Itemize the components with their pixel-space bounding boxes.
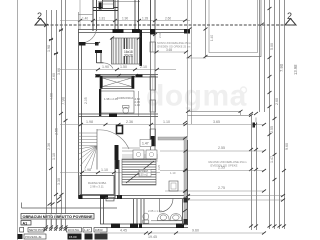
svg-text:15.00: 15.00 — [69, 235, 77, 239]
svg-text:2.36: 2.36 — [47, 143, 51, 150]
sink unit 2 — [170, 214, 182, 221]
svg-text:1.90: 1.90 — [122, 17, 128, 21]
bottom rooms divider walls — [134, 199, 145, 224]
upper stair hatch — [112, 38, 138, 64]
svg-text:2.60: 2.60 — [165, 17, 171, 21]
svg-text:KUPAONICA: KUPAONICA — [117, 96, 133, 100]
mid dimension line — [60, 124, 264, 126]
gray wall end black segments — [184, 198, 189, 203]
left chain tick marks — [44, 24, 68, 229]
svg-text:1.47: 1.47 — [142, 142, 149, 146]
svg-text:1.28: 1.28 — [142, 17, 148, 21]
svg-text:dogma: dogma — [146, 80, 247, 113]
annotation text vanjski zid — [208, 160, 247, 168]
wall below bathroom — [79, 114, 159, 117]
bottom-left chain arrows — [44, 228, 68, 231]
white label box 1.47 — [140, 140, 152, 147]
bottom right wall vertical — [183, 140, 188, 225]
plot boundary line bottom left — [22, 207, 117, 209]
svg-text:4.45: 4.45 — [120, 229, 127, 233]
top right terrace rectangle inner — [209, 0, 258, 53]
porch step box above bottom wall — [106, 197, 114, 201]
left wall black mid — [99, 89, 101, 116]
patio corner ticks — [186, 110, 257, 127]
stair outline — [112, 38, 140, 64]
svg-text:1.40: 1.40 — [210, 35, 214, 41]
top dimension ticks — [78, 19, 187, 22]
big door arc mid — [97, 130, 129, 149]
svg-text:2.05 x 1.60: 2.05 x 1.60 — [148, 209, 162, 213]
void X box — [100, 76, 134, 89]
upper annex top wall — [93, 8, 118, 11]
table: A1 box — [21, 221, 31, 226]
dim line lower mid — [60, 172, 160, 174]
top right terrace rectangle outer — [206, 0, 262, 57]
top dimension line — [60, 20, 190, 22]
svg-text:1.40: 1.40 — [82, 17, 88, 21]
bathroom room box — [100, 91, 134, 113]
svg-text:PRIZEMLJE: PRIZEMLJE — [25, 235, 42, 239]
wall below stair — [95, 75, 158, 78]
tiny leader text left of plan top — [157, 164, 161, 170]
svg-text:1.10: 1.10 — [170, 171, 176, 175]
svg-text:13.98: 13.98 — [293, 64, 298, 75]
svg-text:3.30: 3.30 — [57, 178, 61, 185]
gray outer wall vertical — [184, 137, 187, 225]
table row 2 boxes — [18, 234, 108, 240]
ticks on right area dim lines — [184, 150, 286, 202]
wall pier tick — [95, 50, 102, 53]
kitchen appliance boxes — [133, 150, 157, 159]
vertical extension lines through table — [46, 213, 61, 231]
dimension line mid upper — [60, 69, 176, 71]
corner ticks gray wall — [183, 121, 187, 212]
wall below lower-left room — [79, 196, 191, 199]
section marker 2 right — [285, 11, 296, 25]
kitchen counter hatch — [122, 155, 158, 161]
svg-text:19.45: 19.45 — [148, 235, 157, 239]
svg-text:9.60: 9.60 — [285, 143, 289, 150]
small dimension text cluster above top-left — [210, 35, 214, 41]
svg-text:2.10: 2.10 — [140, 65, 147, 69]
svg-text:2.55: 2.55 — [55, 128, 59, 135]
plan left edge extension line — [79, 0, 81, 29]
svg-text:1.47: 1.47 — [270, 156, 274, 163]
svg-text:2.05: 2.05 — [84, 97, 88, 104]
sink unit 1 — [157, 214, 169, 221]
table: header box — [21, 214, 94, 220]
svg-text:1.10: 1.10 — [101, 168, 108, 172]
lower-left room — [80, 176, 114, 195]
right area dim lines — [160, 150, 264, 152]
svg-text:2.75: 2.75 — [218, 186, 225, 190]
main top wall — [79, 29, 191, 35]
svg-text:2.60: 2.60 — [52, 73, 56, 80]
svg-text:0.25: 0.25 — [157, 164, 161, 170]
section dashed line — [46, 24, 296, 26]
svg-text:1.98: 1.98 — [86, 120, 93, 124]
dimension marker mid-left of terrace — [188, 28, 208, 59]
section marker 2 left — [35, 11, 46, 25]
central vertical wall lower — [115, 160, 119, 199]
stair centre label — [123, 49, 133, 56]
left wall bottom part — [101, 199, 104, 224]
upper annex left wall — [93, 0, 97, 31]
annex inner walls — [115, 0, 155, 34]
upper-left short wall line — [79, 14, 94, 16]
patio lower edge lines — [188, 111, 257, 122]
svg-text:2.60: 2.60 — [158, 32, 162, 38]
plan left wall — [79, 29, 82, 199]
svg-text:A1: A1 — [23, 221, 28, 225]
watermark dogma — [146, 80, 247, 113]
chimney block — [103, 0, 114, 9]
landing lines — [122, 148, 140, 151]
table row 1 boxes — [20, 228, 107, 233]
svg-text:1.98: 1.98 — [84, 168, 91, 172]
svg-text:3.65: 3.65 — [166, 48, 172, 52]
short tie line terrace left — [186, 57, 206, 59]
chain arrow ticks above table — [48, 193, 64, 206]
window marks right wall — [150, 42, 156, 52]
svg-text:IZVEDEN OD OPEKE 25 cm: IZVEDEN OD OPEKE 25 cm — [157, 44, 190, 48]
svg-text:OBRACUN NETO I BRUTTO POVRSINE: OBRACUN NETO I BRUTTO POVRSINE — [23, 215, 93, 219]
stair direction arrow — [126, 161, 154, 183]
svg-text:NOSIVI ZID DEBLJINE 25cm: NOSIVI ZID DEBLJINE 25cm — [157, 41, 191, 45]
room tiny texts — [104, 96, 140, 107]
small dim line right of wall — [156, 51, 186, 53]
entry landing wall — [79, 43, 99, 45]
svg-text:IZVEDEN OD OPEKE: IZVEDEN OD OPEKE — [210, 164, 238, 168]
lower stair hatch — [122, 160, 156, 185]
svg-text:5.00: 5.00 — [270, 43, 274, 50]
stair door arc — [104, 63, 114, 69]
svg-text:7.90: 7.90 — [279, 63, 284, 72]
small shower box — [169, 181, 178, 191]
svg-text:4.66: 4.66 — [50, 93, 54, 100]
svg-text:3.65: 3.65 — [213, 120, 220, 124]
right wall of upper rooms — [151, 34, 156, 160]
left rotated dimension texts — [47, 45, 66, 185]
svg-text:10=0.5m: 10=0.5m — [68, 228, 80, 232]
svg-text:30x28: 30x28 — [124, 54, 133, 58]
svg-text:1.98: 1.98 — [47, 45, 51, 52]
winder stair diagonal treads — [79, 146, 98, 170]
corridor wall line — [138, 91, 140, 116]
right dimension chain verticals — [252, 0, 285, 230]
svg-text:3.66: 3.66 — [57, 68, 61, 75]
entry door arc top left — [81, 28, 97, 44]
gray outer wall horizontal — [158, 137, 187, 140]
bathroom counter line — [151, 220, 183, 222]
left dimension chain verticals — [47, 0, 66, 231]
svg-text:9.60: 9.60 — [192, 229, 199, 233]
right chain tick marks — [249, 7, 286, 228]
winder stair edge vertical — [96, 129, 98, 170]
annotation small top mid — [158, 32, 176, 175]
wall pier box mid — [117, 126, 123, 134]
svg-text:7.90: 7.90 — [61, 96, 66, 105]
bathroom door leaf and arc — [160, 199, 173, 213]
svg-text:2.36: 2.36 — [126, 120, 133, 124]
svg-text:3.50 m2: 3.50 m2 — [139, 173, 149, 177]
piers on wall below stair — [96, 75, 101, 78]
svg-text:1.50: 1.50 — [120, 65, 127, 69]
right rotated dimension texts — [270, 43, 298, 163]
bottom dimension line — [100, 232, 264, 234]
stair centre divider — [123, 38, 125, 64]
wall annotation text top right — [157, 41, 191, 48]
closet walls under stair — [97, 51, 104, 63]
svg-text:1.90: 1.90 — [102, 65, 109, 69]
left frame vertical line — [17, 0, 19, 240]
toilet fixture — [123, 106, 130, 114]
svg-text:1.47: 1.47 — [84, 228, 90, 232]
svg-text:1.40: 1.40 — [135, 103, 141, 107]
stair side wall mid black — [115, 145, 119, 169]
svg-text:1.10: 1.10 — [52, 153, 56, 160]
plan right extension verticals — [188, 0, 192, 137]
bottom wall of plan — [100, 224, 188, 228]
toilet bottom — [143, 213, 149, 223]
svg-text:0.833: 0.833 — [95, 228, 103, 232]
svg-text:2.98 x 3.11: 2.98 x 3.11 — [90, 185, 104, 189]
stair right wall black — [140, 30, 143, 66]
top dimension texts — [82, 17, 171, 21]
svg-text:1.81: 1.81 — [99, 17, 105, 21]
svg-text:2.60: 2.60 — [275, 98, 279, 105]
svg-text:1.10: 1.10 — [163, 120, 170, 124]
winder stair treads horizontal — [79, 133, 98, 146]
svg-text:2.55: 2.55 — [270, 126, 274, 133]
svg-text:2.55: 2.55 — [218, 146, 225, 150]
